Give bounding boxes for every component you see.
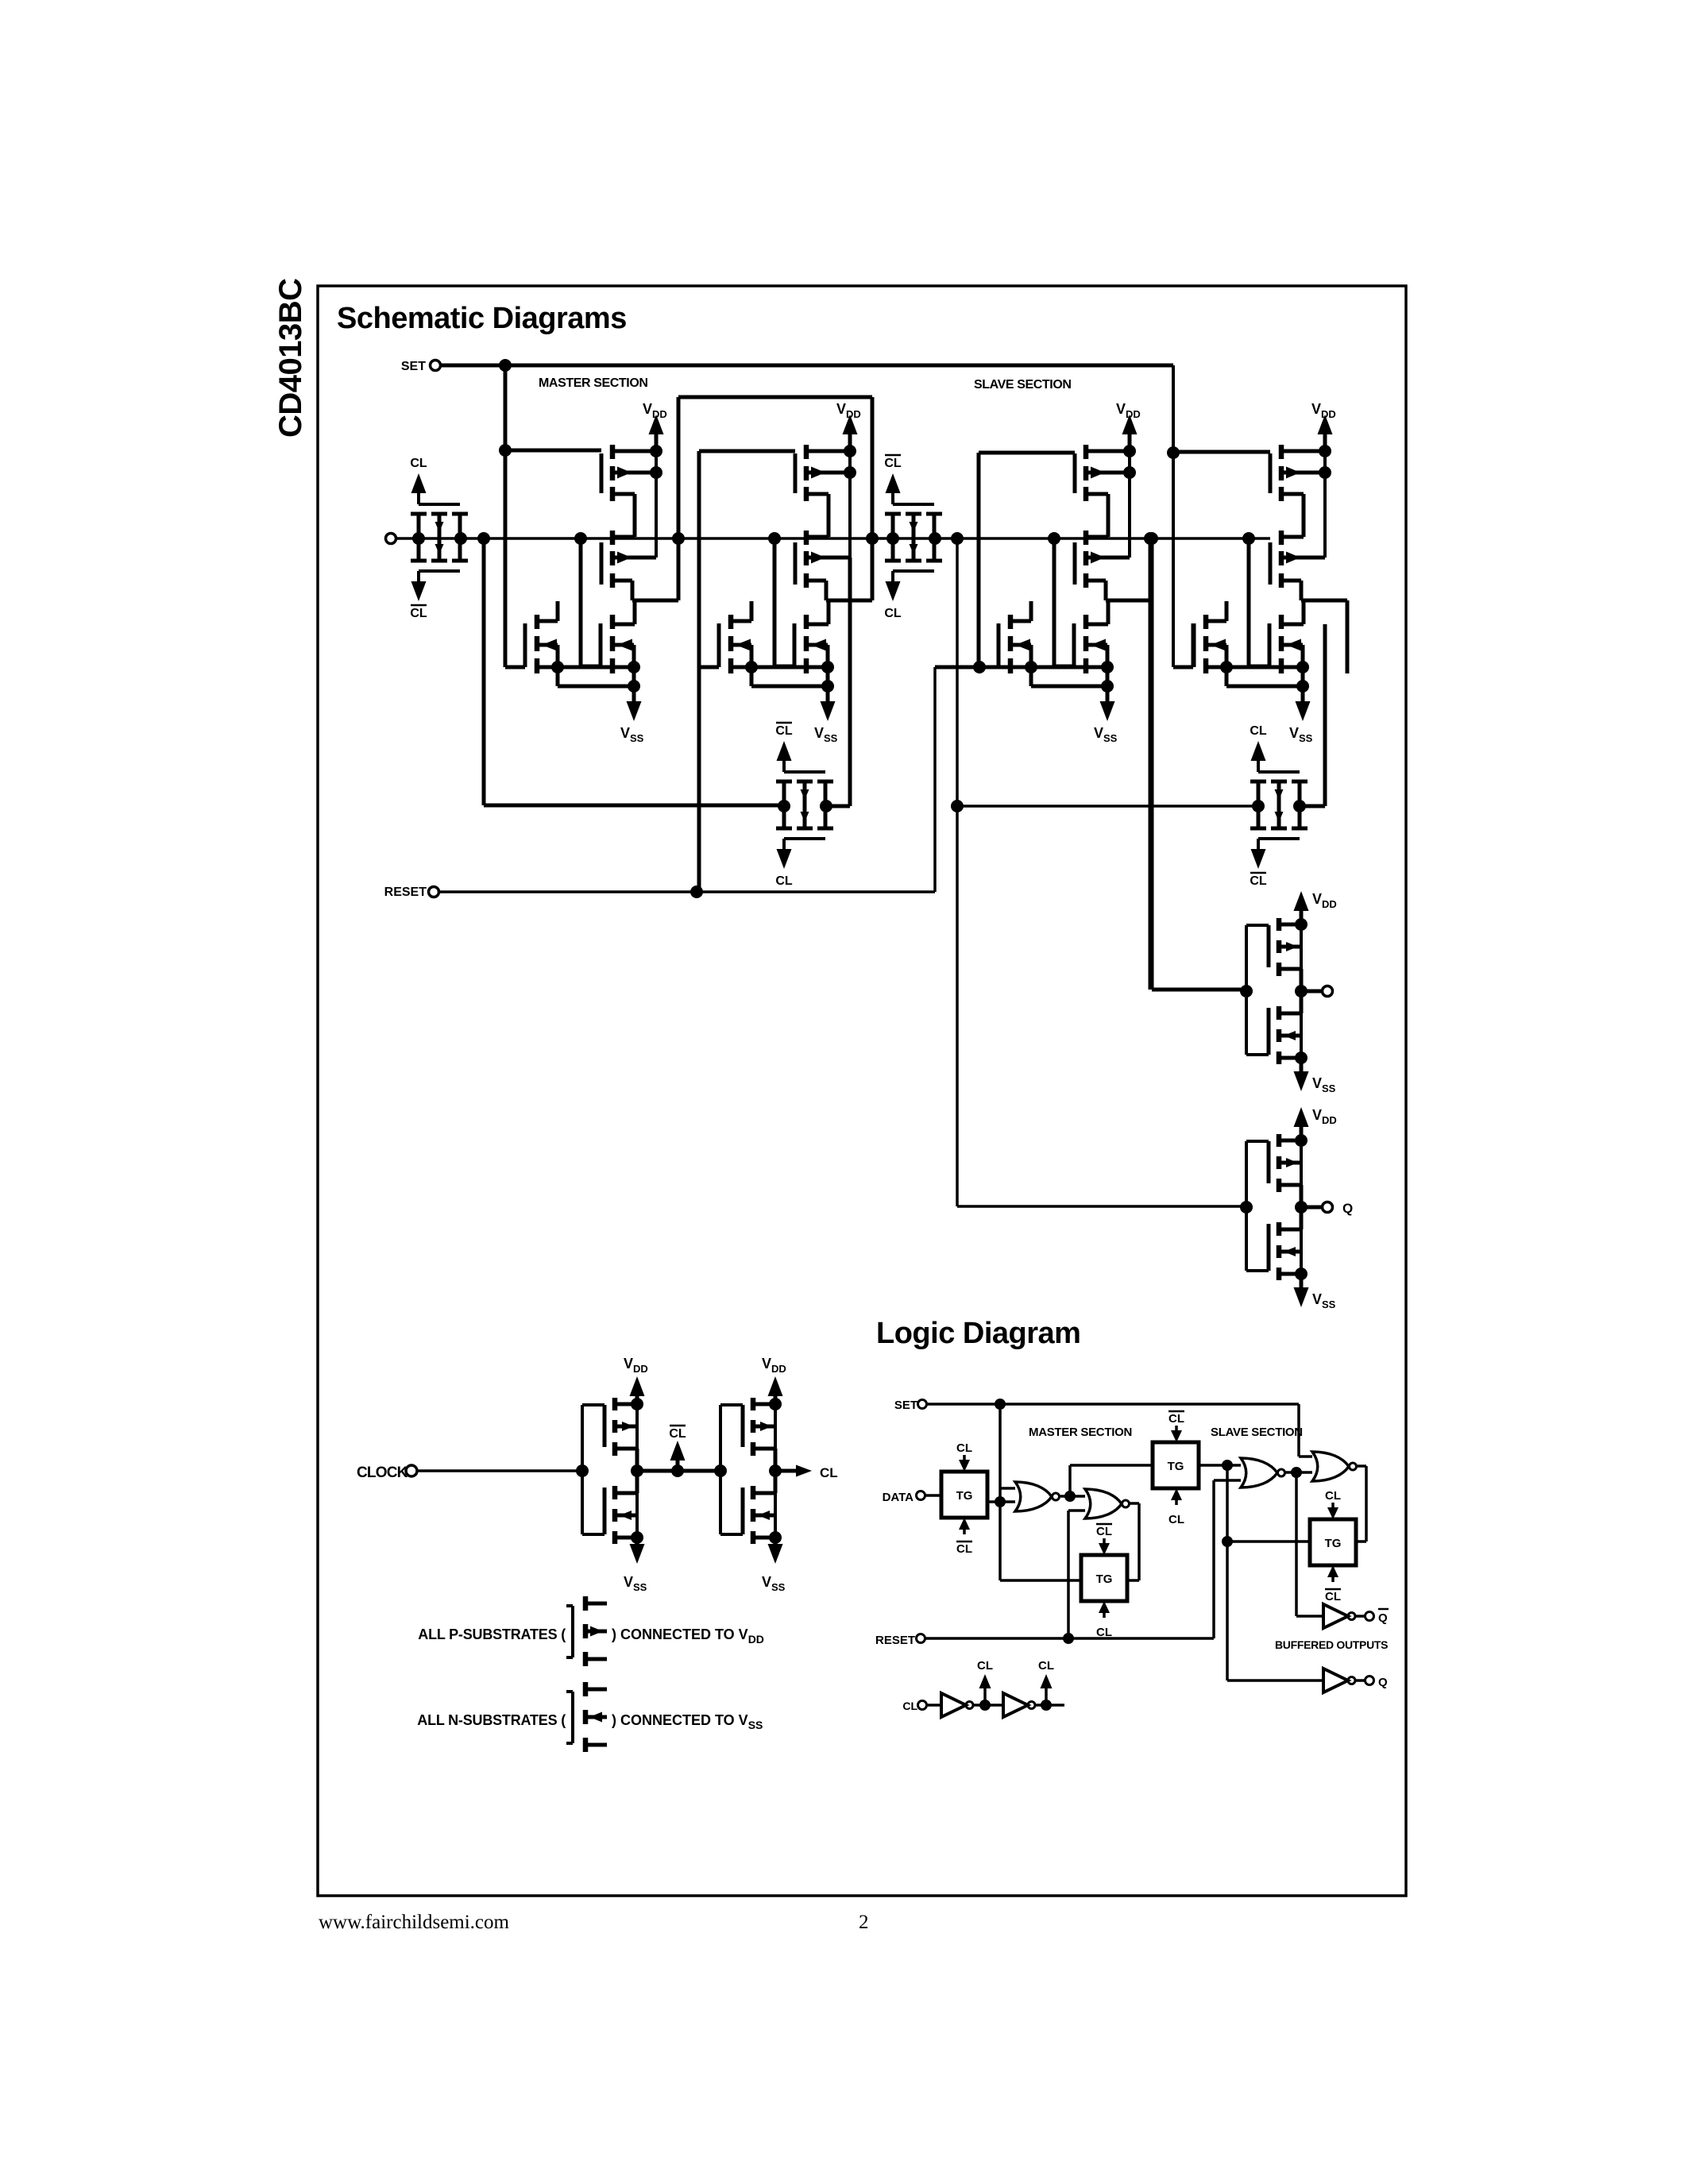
svg-text:VSS: VSS: [1312, 1075, 1336, 1094]
svg-text:CL: CL: [884, 607, 902, 620]
svg-text:VDD: VDD: [1312, 1107, 1337, 1126]
svg-text:ALL P-SUBSTRATES (: ALL P-SUBSTRATES (: [418, 1626, 566, 1642]
svg-text:www.fairchildsemi.com: www.fairchildsemi.com: [319, 1912, 510, 1933]
svg-text:VSS: VSS: [624, 1574, 647, 1593]
svg-text:CL: CL: [1168, 1412, 1184, 1426]
svg-text:2: 2: [859, 1912, 869, 1933]
svg-text:SET: SET: [894, 1399, 917, 1412]
svg-text:RESET: RESET: [875, 1634, 915, 1647]
svg-text:VDD: VDD: [624, 1356, 648, 1375]
svg-text:VSS: VSS: [762, 1574, 786, 1593]
svg-text:CL: CL: [1325, 1590, 1341, 1603]
svg-text:VDD: VDD: [1116, 401, 1141, 420]
svg-text:VSS: VSS: [1094, 725, 1118, 744]
svg-text:VSS: VSS: [620, 725, 644, 744]
svg-text:CL: CL: [820, 1465, 838, 1480]
svg-text:CL: CL: [956, 1542, 972, 1556]
svg-text:VSS: VSS: [814, 725, 838, 744]
svg-text:TG: TG: [1168, 1460, 1184, 1473]
svg-text:RESET: RESET: [384, 886, 427, 899]
svg-text:DATA: DATA: [883, 1491, 914, 1504]
svg-text:CL: CL: [1325, 1489, 1341, 1503]
svg-text:ALL N-SUBSTRATES (: ALL N-SUBSTRATES (: [417, 1712, 566, 1728]
svg-text:CD4013BC: CD4013BC: [273, 278, 308, 438]
svg-text:CL: CL: [956, 1441, 972, 1455]
svg-text:Q: Q: [1378, 1611, 1388, 1625]
svg-text:VSS: VSS: [1312, 1291, 1336, 1310]
svg-text:CL: CL: [775, 874, 793, 888]
svg-text:CLOCK: CLOCK: [357, 1464, 408, 1481]
svg-text:CL: CL: [1250, 874, 1267, 888]
svg-text:CL: CL: [902, 1700, 917, 1712]
svg-text:Logic Diagram: Logic Diagram: [876, 1317, 1080, 1350]
svg-text:CL: CL: [410, 607, 427, 620]
svg-text:CL: CL: [1168, 1513, 1184, 1526]
svg-text:CL: CL: [775, 724, 793, 738]
svg-text:VSS: VSS: [1289, 725, 1313, 744]
svg-text:CL: CL: [977, 1659, 993, 1673]
svg-text:Schematic Diagrams: Schematic Diagrams: [337, 302, 627, 335]
svg-text:SLAVE SECTION: SLAVE SECTION: [1211, 1426, 1303, 1439]
svg-text:CL: CL: [410, 457, 427, 470]
svg-text:CL: CL: [1038, 1659, 1054, 1673]
svg-text:VDD: VDD: [836, 401, 861, 420]
svg-text:VDD: VDD: [1311, 401, 1336, 420]
svg-text:CL: CL: [884, 457, 902, 470]
svg-text:MASTER SECTION: MASTER SECTION: [1029, 1426, 1132, 1439]
svg-text:TG: TG: [1325, 1537, 1342, 1550]
svg-text:Q: Q: [1342, 1201, 1353, 1216]
svg-text:SET: SET: [401, 360, 426, 373]
svg-text:VDD: VDD: [762, 1356, 786, 1375]
svg-text:SLAVE SECTION: SLAVE SECTION: [974, 378, 1072, 392]
svg-text:TG: TG: [1096, 1572, 1113, 1586]
svg-text:VDD: VDD: [643, 401, 667, 420]
svg-text:Q: Q: [1378, 1676, 1388, 1689]
svg-text:VDD: VDD: [1312, 891, 1337, 910]
svg-text:) CONNECTED TO VDD: ) CONNECTED TO VDD: [612, 1626, 764, 1646]
svg-text:) CONNECTED TO VSS: ) CONNECTED TO VSS: [612, 1712, 763, 1731]
svg-text:CL: CL: [1096, 1525, 1112, 1538]
svg-text:CL: CL: [1250, 724, 1267, 738]
svg-text:TG: TG: [956, 1489, 973, 1503]
svg-text:CL: CL: [669, 1427, 686, 1441]
svg-text:MASTER SECTION: MASTER SECTION: [539, 376, 648, 390]
svg-text:BUFFERED OUTPUTS: BUFFERED OUTPUTS: [1275, 1638, 1388, 1651]
